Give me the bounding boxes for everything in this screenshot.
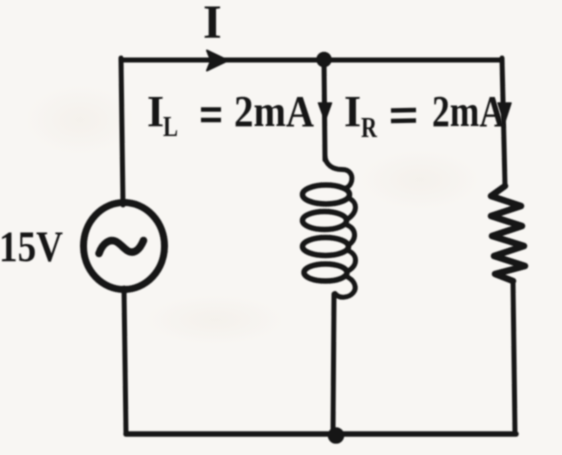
arrow IR down bbox=[498, 103, 511, 123]
svg-text:L: L bbox=[163, 112, 178, 143]
inductor L1 arc 1-2 bbox=[347, 198, 355, 220]
inductor L1 arc 3-4 bbox=[348, 251, 356, 272]
svg-text:I: I bbox=[147, 87, 164, 136]
AC source V1 circle bbox=[84, 203, 165, 290]
wire middle branch lower bbox=[333, 294, 334, 434]
inductor L1 loop 2 bbox=[303, 212, 347, 230]
AC source sine symbol bbox=[99, 241, 144, 254]
node B junction dot bottom bbox=[329, 428, 344, 443]
inductor L1 entry hook bbox=[325, 156, 352, 188]
arrow IL down bbox=[319, 103, 332, 121]
inductor L1 loop 3 bbox=[303, 238, 349, 256]
svg-text:15V: 15V bbox=[0, 224, 63, 271]
current arrow I on top wire bbox=[207, 51, 228, 71]
inductor L1 loop 4 bbox=[304, 264, 347, 281]
inductor L1 arc 2-3 bbox=[346, 225, 355, 246]
node A junction dot top bbox=[317, 53, 331, 67]
svg-text:R: R bbox=[361, 113, 378, 144]
svg-text:2mA: 2mA bbox=[432, 87, 505, 136]
wire middle branch upper bbox=[324, 60, 325, 160]
wire left vertical (top of source) bbox=[121, 58, 123, 205]
label = 2mA (left) bbox=[201, 110, 221, 121]
wire top (node from source to resistor branch) bbox=[121, 58, 502, 63]
wire right vertical lower bbox=[513, 281, 515, 434]
inductor L1 loop 1 bbox=[303, 185, 350, 204]
svg-text:I: I bbox=[203, 0, 222, 49]
label = 2mA (right) bbox=[391, 110, 416, 121]
wire left vertical (bottom of source) bbox=[124, 288, 126, 434]
resistor R1 zigzag bbox=[491, 186, 525, 281]
wire bottom bbox=[126, 431, 516, 437]
svg-text:I: I bbox=[344, 87, 361, 136]
svg-text:2mA: 2mA bbox=[234, 87, 314, 136]
wire right vertical upper bbox=[502, 58, 505, 186]
inductor L1 exit hook bbox=[335, 276, 355, 297]
